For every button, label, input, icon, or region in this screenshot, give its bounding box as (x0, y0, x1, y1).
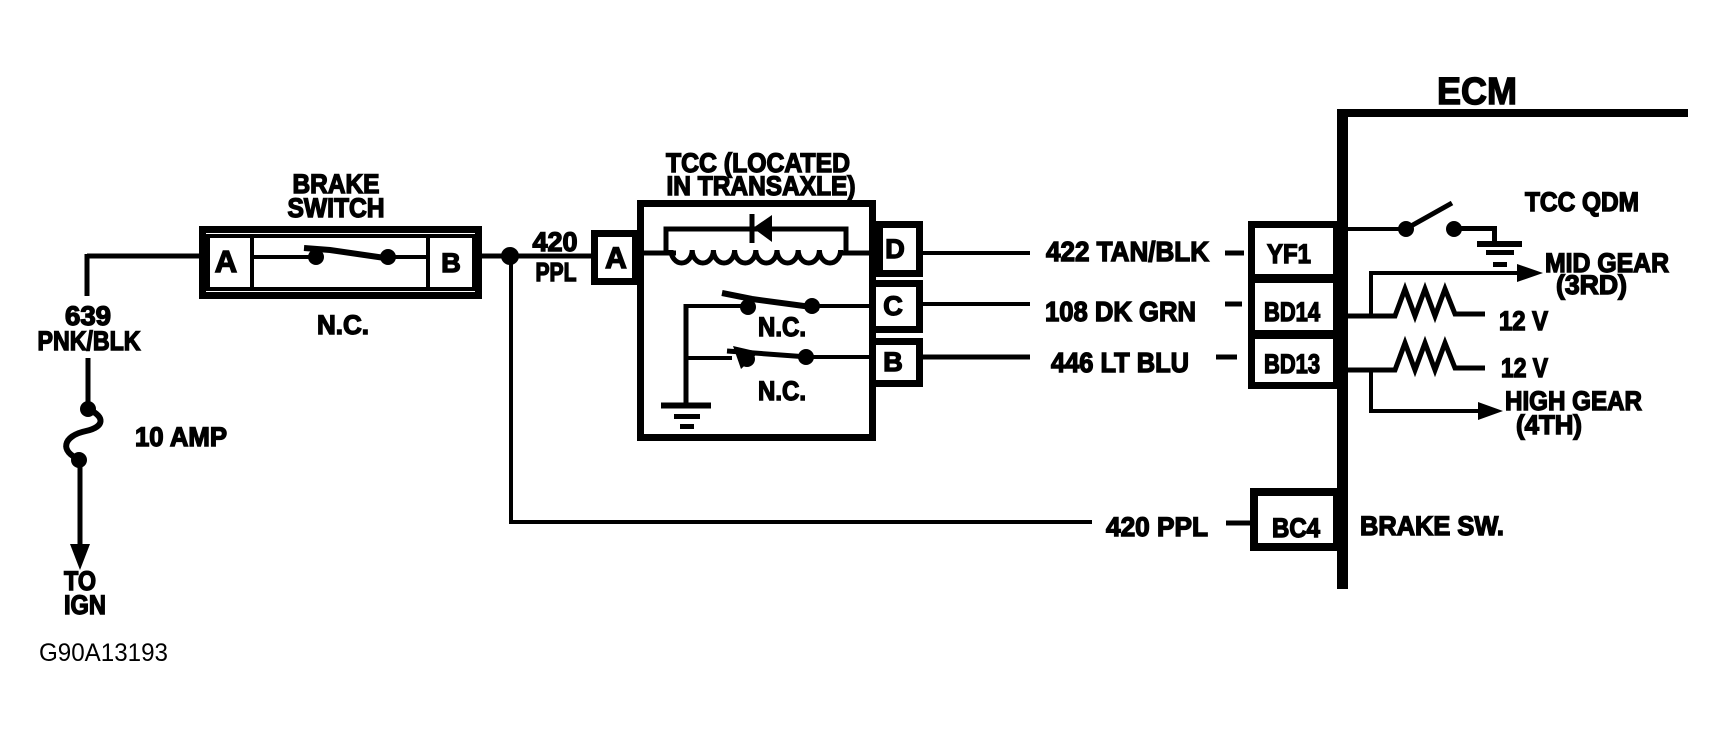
svg-text:(3RD): (3RD) (1556, 270, 1627, 300)
svg-text:ECM: ECM (1437, 71, 1517, 113)
svg-text:A: A (215, 244, 237, 279)
svg-text:N.C.: N.C. (317, 310, 369, 340)
svg-text:A: A (605, 242, 627, 275)
svg-text:422 TAN/BLK: 422 TAN/BLK (1046, 236, 1209, 267)
svg-text:PNK/BLK: PNK/BLK (38, 326, 141, 356)
svg-text:10 AMP: 10 AMP (135, 422, 227, 452)
svg-text:D: D (885, 234, 905, 264)
svg-text:BD14: BD14 (1264, 297, 1320, 327)
svg-text:B: B (883, 347, 903, 377)
svg-text:420 PPL: 420 PPL (1106, 512, 1208, 542)
svg-text:108 DK GRN: 108 DK GRN (1045, 296, 1196, 327)
svg-text:BD13: BD13 (1264, 349, 1320, 379)
svg-text:G90A13193: G90A13193 (39, 639, 168, 667)
svg-text:446 LT BLU: 446 LT BLU (1051, 347, 1189, 378)
svg-text:12 V: 12 V (1501, 353, 1548, 383)
svg-text:420: 420 (533, 227, 578, 257)
svg-text:IN TRANSAXLE): IN TRANSAXLE) (667, 171, 856, 201)
svg-text:12 V: 12 V (1499, 306, 1548, 336)
svg-text:BC4: BC4 (1272, 513, 1320, 543)
svg-text:N.C.: N.C. (758, 312, 806, 342)
svg-text:N.C.: N.C. (758, 376, 806, 406)
svg-text:SWITCH: SWITCH (288, 193, 385, 223)
svg-text:IGN: IGN (64, 590, 106, 620)
svg-text:TCC QDM: TCC QDM (1525, 187, 1639, 217)
svg-text:PPL: PPL (536, 257, 577, 287)
svg-text:YF1: YF1 (1267, 239, 1311, 269)
svg-text:(4TH): (4TH) (1516, 410, 1582, 440)
svg-text:BRAKE SW.: BRAKE SW. (1360, 511, 1504, 541)
svg-text:B: B (441, 248, 461, 278)
svg-text:C: C (883, 291, 903, 321)
